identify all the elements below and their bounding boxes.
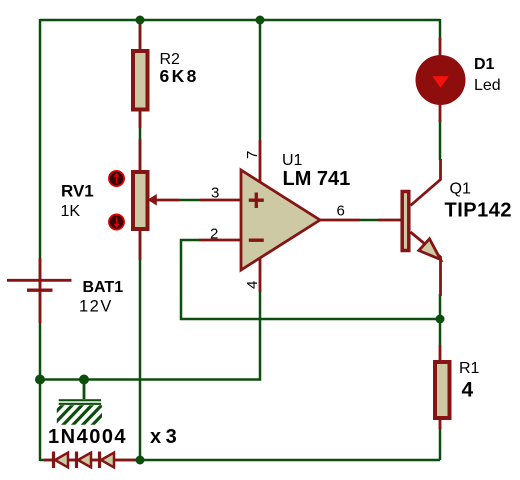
resistor R1	[435, 362, 450, 418]
potentiometer RV1 pins	[139, 139, 142, 260]
RV1 wiper arrow	[148, 194, 157, 206]
resistor R1 pins	[439, 345, 442, 429]
svg-text:7: 7	[244, 151, 261, 159]
junction emitter node	[436, 315, 445, 324]
svg-text:6: 6	[337, 203, 345, 220]
wire feedback pin2 to emitter node	[181, 240, 440, 319]
resistor R2 pins	[139, 21, 142, 128]
svg-text:D1: D1	[474, 56, 495, 73]
wire pin3 segment	[179, 199, 200, 202]
wire output segment	[360, 219, 378, 222]
wire R2 RV1 column	[139, 20, 142, 460]
wire top rail	[40, 19, 440, 22]
battery BAT1 short plate	[27, 289, 53, 292]
wire led to transistor	[439, 120, 442, 160]
junction diode chain	[136, 456, 145, 465]
svg-text:R1: R1	[459, 360, 480, 377]
diode chain red wire	[44, 459, 140, 462]
wire left rail	[39, 19, 42, 461]
svg-text:x3: x3	[150, 426, 181, 448]
led D1 anode stub	[439, 38, 442, 58]
op-amp plus sign	[249, 193, 264, 209]
wire pin7 vertical	[259, 20, 262, 140]
junction ground rail left	[35, 375, 45, 385]
svg-text:RV1: RV1	[61, 182, 94, 201]
RV1 up button	[109, 171, 124, 186]
transistor Q1 emitter pin	[411, 232, 441, 296]
op-amp U1 pin7 stub	[259, 140, 262, 184]
svg-text:12V: 12V	[79, 298, 113, 316]
diode D2 bar	[52, 452, 55, 469]
transistor Q1 base bar	[402, 192, 409, 251]
battery BAT1 long plate	[7, 279, 72, 282]
ground stem	[83, 380, 86, 399]
diode D3 triangle	[78, 453, 91, 468]
svg-text:TIP142: TIP142	[445, 200, 512, 222]
RV1 wiper shaft / pin3 red wire	[154, 199, 241, 202]
junction top mid	[256, 16, 265, 25]
svg-text:BAT1: BAT1	[83, 279, 124, 296]
led D1 triangle	[432, 76, 449, 87]
op-amp U1 pin4 stub	[259, 253, 262, 292]
op-amp output pin6 stub	[319, 219, 401, 222]
diode D2 triangle	[55, 453, 68, 468]
wire node to R1	[439, 319, 442, 345]
op-amp pin2 stub	[199, 239, 241, 242]
diode D4 triangle	[101, 453, 114, 468]
diode D4 bar	[98, 452, 101, 469]
svg-text:1K: 1K	[61, 203, 81, 220]
svg-text:6K8: 6K8	[160, 66, 199, 86]
transistor Q1 emitter arrowhead	[419, 239, 441, 260]
svg-text:4: 4	[462, 379, 474, 402]
svg-text:Q1: Q1	[450, 181, 471, 198]
transistor Q1 collector pin	[411, 159, 441, 206]
wire R1 to bottom rail	[439, 428, 442, 460]
svg-text:LM 741: LM 741	[283, 168, 351, 190]
op-amp minus sign	[249, 238, 264, 241]
wire bottom rail	[40, 459, 440, 462]
battery BAT1 pins	[39, 258, 42, 323]
led D1 cathode stub	[439, 103, 442, 122]
svg-text:Led: Led	[474, 77, 501, 94]
diode D3 bar	[75, 452, 78, 469]
ground bar top	[59, 399, 101, 401]
svg-text:3: 3	[211, 185, 219, 202]
svg-text:1N4004: 1N4004	[48, 426, 127, 448]
RV1 down button	[109, 214, 124, 229]
svg-text:U1: U1	[282, 152, 303, 169]
ground bar bottom	[59, 403, 101, 405]
svg-text:2: 2	[210, 226, 218, 243]
wire right branch top	[439, 19, 442, 40]
wire pin4 vertical to ground rail	[40, 290, 260, 380]
potentiometer RV1	[133, 172, 148, 229]
op-amp U1 body	[241, 170, 320, 270]
led D1 body	[416, 55, 466, 105]
junction top left	[136, 16, 145, 25]
junction ground tap	[79, 375, 89, 385]
svg-text:4: 4	[244, 281, 261, 289]
wire emitter to node	[439, 294, 442, 319]
ground hatching	[43, 404, 114, 427]
resistor R2	[133, 51, 148, 110]
